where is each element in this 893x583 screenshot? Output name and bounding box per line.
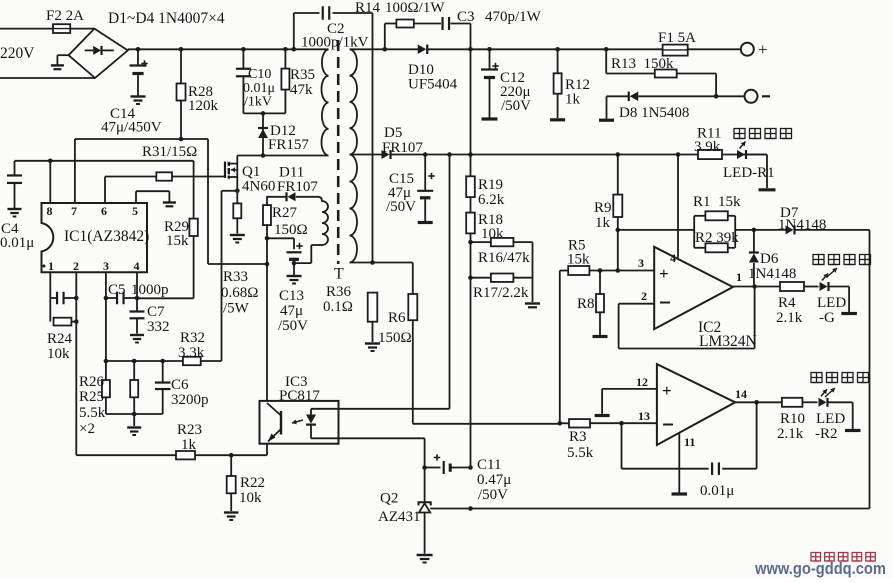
label R13 150k <box>611 56 674 72</box>
svg-text:7: 7 <box>71 204 77 218</box>
ground below R25 <box>127 414 141 435</box>
label LED -R2 <box>815 411 845 442</box>
svg-text:12: 12 <box>636 375 648 389</box>
svg-text:R2 39k: R2 39k <box>695 230 739 246</box>
wire HV rail (bridge output) <box>128 47 329 52</box>
label IC1(AZ3842) <box>64 228 149 245</box>
label D10 UF5404 <box>408 62 458 93</box>
diode D10 <box>418 45 428 55</box>
svg-text:2: 2 <box>73 259 79 273</box>
svg-text:R6: R6 <box>388 310 406 326</box>
wire R1R2 line <box>618 228 756 233</box>
label IC3 PC817 <box>279 374 320 404</box>
svg-text:R8: R8 <box>577 296 595 312</box>
svg-text:UF5404: UF5404 <box>408 77 458 93</box>
resistor R23 <box>176 451 195 459</box>
svg-text:8: 8 <box>47 204 53 218</box>
ground at bridge left vertex <box>51 55 69 69</box>
svg-text:47k: 47k <box>290 82 313 98</box>
svg-text:5.5k: 5.5k <box>79 405 106 421</box>
svg-text:4: 4 <box>134 259 140 273</box>
label R6 150ohm <box>378 310 412 346</box>
watermark url <box>754 559 886 578</box>
svg-text:D8 1N5408: D8 1N5408 <box>619 105 689 121</box>
wire R5 to pin13 node <box>559 271 561 424</box>
svg-text:C10: C10 <box>248 67 271 82</box>
resistor R22 <box>224 455 239 520</box>
svg-text:FR157: FR157 <box>268 137 309 153</box>
label Q2 AZ431 <box>378 491 421 526</box>
resistor R14 <box>396 20 413 28</box>
svg-text:www.go-gddq.com: www.go-gddq.com <box>754 559 886 578</box>
wire pin6 to gate <box>104 177 106 204</box>
ground of R16/R17 <box>525 242 540 307</box>
wire gate line <box>105 176 225 178</box>
svg-text:13: 13 <box>638 409 650 423</box>
shunt regulator Q2 AZ431 <box>417 502 433 562</box>
svg-text:11: 11 <box>684 435 695 449</box>
svg-text:R19: R19 <box>478 177 503 193</box>
svg-text:+: + <box>662 381 672 400</box>
wire pin2 long vertical <box>75 272 77 455</box>
svg-text:0.01μ: 0.01μ <box>700 483 734 499</box>
label charging indicator (CJK) <box>811 373 869 398</box>
label R32 3.3k <box>178 330 205 361</box>
svg-text:D5: D5 <box>384 125 402 141</box>
label C5 1000p <box>108 282 169 298</box>
svg-text:/50V: /50V <box>501 98 531 114</box>
svg-text:IC1(AZ3842): IC1(AZ3842) <box>64 228 149 245</box>
wire pin12 to ground <box>595 375 657 416</box>
svg-text:/5W: /5W <box>223 301 250 317</box>
svg-text:R33: R33 <box>223 269 248 285</box>
transistor Q1 MOSFET <box>225 156 240 194</box>
label D8 1N5408 <box>619 105 689 121</box>
svg-text:-G: -G <box>819 310 835 326</box>
resistor R27 <box>263 197 271 241</box>
wire divider tap to C11/Q2 <box>470 278 472 468</box>
label pin 4 <box>670 251 676 265</box>
resistor R4 <box>780 282 819 291</box>
label Q1 4N60 <box>242 164 275 195</box>
svg-text:FR107: FR107 <box>277 179 318 195</box>
label C10 0.01u/1kV <box>243 67 275 110</box>
svg-text:R22: R22 <box>240 475 265 491</box>
label C15 47u/50V <box>386 171 416 215</box>
svg-text:PC817: PC817 <box>279 388 320 404</box>
label D5 FR107 <box>382 125 423 156</box>
wire IC2b output <box>735 387 782 402</box>
fuse F2 <box>53 24 70 33</box>
svg-text:R9: R9 <box>594 200 612 216</box>
wire C2 to secondary common (Y-cap drop) <box>372 13 374 263</box>
LED-R1 power indicator <box>737 142 776 190</box>
label R31/15ohm <box>142 144 197 160</box>
wire secondary common (bottom) <box>350 260 413 265</box>
wire aux winding top <box>266 196 318 198</box>
resistor R1 / R2 parallel <box>694 211 735 252</box>
svg-text:0.68Ω: 0.68Ω <box>221 285 258 301</box>
label power indicator (CJK) <box>734 129 792 139</box>
wire IC2a output <box>733 270 780 289</box>
svg-text:4N60: 4N60 <box>242 179 275 195</box>
diode D7 <box>754 225 870 234</box>
diode D5 <box>382 150 391 159</box>
svg-text:/50V: /50V <box>478 487 508 503</box>
label charge-full indicator (CJK) <box>813 255 871 278</box>
resistor R13 branch <box>606 49 718 98</box>
svg-text:10k: 10k <box>239 490 262 506</box>
svg-text:R1 15k: R1 15k <box>693 194 741 210</box>
watermark site name (CJK) <box>811 553 875 562</box>
wire opto emitter <box>266 444 268 456</box>
svg-text:D1~D4 1N4007×4: D1~D4 1N4007×4 <box>108 10 225 27</box>
label C11 0.47u/50V <box>477 457 511 503</box>
svg-text:3.9k: 3.9k <box>694 139 721 155</box>
resistor R6 <box>408 263 417 424</box>
wire AC line top <box>0 28 94 30</box>
resistor R36 <box>365 293 380 351</box>
svg-text:R32: R32 <box>180 330 205 346</box>
wire feedback rail (pin2 to opto emitter) <box>76 453 267 458</box>
svg-text:R31/15Ω: R31/15Ω <box>142 144 197 160</box>
wire pin13 line <box>590 409 657 426</box>
wire pin3 network bottom rail <box>106 412 163 417</box>
IC1 AZ3842 box <box>42 203 148 272</box>
label C14 47u/450V <box>101 106 162 136</box>
resistor R25 <box>130 361 138 414</box>
wire low-voltage VCC rail <box>391 152 768 157</box>
svg-text:1000p/1kV: 1000p/1kV <box>301 35 369 51</box>
svg-text:1k: 1k <box>565 92 581 108</box>
svg-text:Q2: Q2 <box>380 491 398 507</box>
svg-text:-R2: -R2 <box>815 426 838 442</box>
capacitor C8 (pins 1-2) <box>50 292 78 305</box>
svg-text:R3: R3 <box>569 429 587 445</box>
diode D11 <box>287 192 296 201</box>
fuse F1 <box>663 45 688 56</box>
label D11 FR107 <box>277 165 318 196</box>
svg-text:F1 5A: F1 5A <box>658 30 696 46</box>
wire pin3 <box>104 272 109 361</box>
capacitor C5 <box>106 292 194 305</box>
wire Q1 source to R32 (current sense) <box>222 191 238 361</box>
svg-text:C3: C3 <box>457 9 475 25</box>
wire pin11 ground <box>672 433 696 494</box>
transformer primary winding <box>321 49 328 155</box>
svg-text:LED: LED <box>816 411 845 427</box>
wire pin3 input line <box>598 256 655 273</box>
svg-text:6.2k: 6.2k <box>478 192 505 208</box>
svg-text:14: 14 <box>735 387 747 401</box>
svg-text:47μ/450V: 47μ/450V <box>101 120 162 136</box>
svg-text:/50V: /50V <box>386 199 416 215</box>
label R18 10k <box>478 212 504 242</box>
label D6 1N4148 <box>748 251 796 282</box>
wire bottom common rail <box>430 506 869 511</box>
svg-text:R24: R24 <box>47 331 73 347</box>
resistor R8 <box>593 271 608 337</box>
label R24 10k <box>47 331 73 362</box>
svg-text:R35: R35 <box>290 67 315 83</box>
resistor R17 <box>468 274 532 282</box>
svg-text:R16/47k: R16/47k <box>478 250 530 266</box>
svg-text:2.1k: 2.1k <box>777 426 804 442</box>
svg-text:R10: R10 <box>780 411 805 427</box>
wire secondary top to D10 <box>350 47 419 52</box>
label R1 15k <box>693 194 741 210</box>
svg-text:15k: 15k <box>166 233 189 249</box>
label R4 2.1k <box>776 295 803 326</box>
wire snubber branch <box>385 24 471 50</box>
wire pin1 <box>49 272 51 321</box>
svg-text:R36: R36 <box>326 284 352 300</box>
label R8 <box>577 296 595 312</box>
wire secondary tap to D5 <box>350 154 382 156</box>
svg-text:R25: R25 <box>79 389 104 405</box>
svg-text:3.3k: 3.3k <box>178 345 205 361</box>
svg-text:T: T <box>334 266 344 283</box>
label T <box>334 266 344 283</box>
label D12 FR157 <box>268 123 309 153</box>
label R16/47k <box>478 250 530 266</box>
svg-text:/50V: /50V <box>278 318 308 334</box>
output terminal + <box>741 40 768 59</box>
capacitor C7 <box>130 312 145 343</box>
diode D8 line to - output <box>599 96 744 120</box>
svg-text:6: 6 <box>101 204 107 218</box>
label D1~D4 1N4007x4 <box>108 10 225 27</box>
resistor R18 <box>466 213 475 278</box>
svg-text:×2: ×2 <box>79 421 95 437</box>
resistor R32 <box>183 357 201 365</box>
resistor R9 <box>613 155 622 273</box>
label C2 1000p/1kV <box>301 21 369 51</box>
resistor R26 <box>102 361 110 414</box>
resistor R29 <box>189 161 197 298</box>
wire IC2b feedback with cap <box>622 400 759 475</box>
resistor R5 <box>560 266 618 275</box>
svg-text:/1kV: /1kV <box>244 95 272 110</box>
label R33 0.68ohm/5W <box>221 269 258 317</box>
label C3 470p/1W <box>457 9 542 25</box>
svg-text:1N4148: 1N4148 <box>778 217 826 233</box>
svg-text:R13 150k: R13 150k <box>611 56 674 72</box>
wire AC line bottom <box>0 77 95 79</box>
bridge rectifier D1-D4 <box>69 29 128 78</box>
wire VCC return to IC1 <box>208 139 269 401</box>
optocoupler IC3 PC817 <box>260 401 339 444</box>
capacitor 0.01u label <box>700 483 734 499</box>
op-amp IC2a <box>654 247 733 329</box>
label F1 5A <box>658 30 696 46</box>
capacitor C13 <box>267 238 303 283</box>
svg-text:220V: 220V <box>0 45 35 62</box>
svg-text:47μ: 47μ <box>280 303 303 319</box>
wire VCC line (pin7) <box>75 137 208 203</box>
svg-text:R23: R23 <box>177 422 202 438</box>
svg-text:0.47μ: 0.47μ <box>477 472 511 488</box>
svg-text:C11: C11 <box>477 457 501 473</box>
label R26 R25 5.5k x2 <box>79 374 106 437</box>
resistor R33 <box>230 191 245 243</box>
label R12 1k <box>565 77 590 108</box>
wire IC2a V+ (pin4) <box>677 155 679 258</box>
wire drain line <box>237 153 328 158</box>
svg-text:332: 332 <box>147 319 170 335</box>
svg-text:1: 1 <box>48 259 54 273</box>
capacitor C4 <box>7 161 22 217</box>
label R22 10k <box>239 475 265 506</box>
resistor R31 <box>156 172 172 180</box>
label R9 1k <box>594 200 612 231</box>
svg-text:150Ω: 150Ω <box>274 222 308 238</box>
op-amp IC2b <box>657 364 735 445</box>
capacitor C11 <box>425 454 473 474</box>
svg-text:R14: R14 <box>355 0 381 16</box>
label C12 220u/50V <box>500 70 531 114</box>
svg-text:C7: C7 <box>147 304 165 320</box>
wire right edge vertical <box>869 230 871 509</box>
svg-text:150Ω: 150Ω <box>378 330 412 346</box>
svg-text:15k: 15k <box>567 252 590 268</box>
label F2 2A <box>46 8 84 24</box>
LED-G charge-full indicator <box>820 274 857 314</box>
resistor R10 <box>782 398 818 407</box>
LED-R2 charging indicator <box>819 389 861 430</box>
label R27 150ohm <box>272 205 308 238</box>
transformer secondary winding <box>350 49 358 262</box>
svg-text:LED: LED <box>817 295 846 311</box>
svg-text:+: + <box>659 264 669 283</box>
label IC2 LM324N <box>698 319 757 350</box>
resistor R28 <box>177 49 186 139</box>
label R3 5.5k <box>567 429 594 461</box>
label C4 0.01u <box>0 221 34 251</box>
svg-text:R26: R26 <box>79 374 105 390</box>
resistor R11 <box>698 150 722 159</box>
label D7 1N4148 <box>778 205 826 233</box>
wire pin2 input and feedback <box>619 287 755 349</box>
resistor R16 <box>471 238 533 246</box>
svg-text:R17/2.2k: R17/2.2k <box>473 285 529 301</box>
label R14 100ohm/1W <box>355 0 445 16</box>
svg-text:1k: 1k <box>595 215 611 231</box>
label R19 6.2k <box>478 177 505 208</box>
svg-text:D6: D6 <box>760 251 779 267</box>
label LED-R1 <box>723 165 775 181</box>
svg-text:10k: 10k <box>47 346 70 362</box>
label R29 15k <box>164 219 189 249</box>
svg-text:2.1k: 2.1k <box>776 310 803 326</box>
svg-text:R27: R27 <box>272 205 298 221</box>
svg-text:C6: C6 <box>171 377 189 393</box>
svg-text:5.5k: 5.5k <box>567 445 594 461</box>
svg-text:+: + <box>758 40 768 59</box>
label R23 1k <box>177 422 202 453</box>
svg-text:2: 2 <box>641 289 647 303</box>
svg-text:0.01μ: 0.01μ <box>0 235 34 251</box>
wire D5-line drop to opto LED <box>311 155 450 409</box>
resistor R24 <box>54 318 79 326</box>
transformer core <box>337 40 340 264</box>
svg-text:1N4148: 1N4148 <box>748 266 796 282</box>
clamp network C10 box <box>236 49 290 115</box>
svg-text:120k: 120k <box>188 98 219 114</box>
label C6 3200p <box>171 377 209 408</box>
svg-text:470p/1W: 470p/1W <box>485 9 542 25</box>
svg-text:LED-R1: LED-R1 <box>723 165 775 181</box>
svg-text:1k: 1k <box>181 437 197 453</box>
svg-text:3: 3 <box>103 259 109 273</box>
label R2 39k <box>695 230 739 246</box>
label R35 47k <box>290 67 315 98</box>
label R17/2.2k <box>473 285 529 301</box>
svg-text:3200p: 3200p <box>171 392 209 408</box>
svg-text:C5: C5 <box>108 282 126 298</box>
capacitor C15 <box>417 155 435 223</box>
svg-text:C13: C13 <box>279 288 304 304</box>
label R5 15k <box>567 238 590 268</box>
capacitor C6 <box>155 361 171 414</box>
svg-text:100Ω/1W: 100Ω/1W <box>385 0 445 16</box>
label C13 47u/50V <box>278 288 308 334</box>
svg-text:R4: R4 <box>778 295 796 311</box>
label LED -G <box>817 295 846 326</box>
capacitor C12 <box>481 49 499 119</box>
wire + output rail <box>428 47 741 52</box>
diode D8 <box>629 92 639 102</box>
label C7 332 <box>147 304 170 335</box>
label R28 120k <box>188 84 219 114</box>
wire pin5 to ground <box>136 191 176 206</box>
aux winding <box>294 197 328 263</box>
capacitor C14 <box>130 49 148 104</box>
svg-text:LM324N: LM324N <box>699 333 757 350</box>
diode D12 <box>258 113 268 155</box>
resistor R12 <box>550 49 565 120</box>
resistor R3 <box>558 419 591 427</box>
label R10 2.1k <box>777 411 805 442</box>
output terminal - <box>745 90 771 103</box>
capacitor C3 <box>443 17 450 30</box>
wire pin4 <box>136 272 138 311</box>
svg-text:1: 1 <box>736 270 742 284</box>
wire pin3 network rail <box>104 359 222 364</box>
wire opto LED cathode to Q2 <box>311 438 427 502</box>
label R36 0.1ohm <box>323 284 353 315</box>
svg-text:0.1Ω: 0.1Ω <box>323 299 353 315</box>
IC1 pin numbers <box>43 204 140 273</box>
label R11 3.9k <box>694 126 721 156</box>
label 220V <box>0 45 35 62</box>
resistor R19 <box>466 49 475 212</box>
svg-text:3: 3 <box>638 256 644 270</box>
wire R6 to R3 (pin13 rail) <box>413 423 560 425</box>
svg-text:AZ431: AZ431 <box>378 509 421 525</box>
capacitor C2 branch <box>294 6 373 49</box>
diode D6 <box>749 230 759 287</box>
wire VREF line (pin8) <box>15 159 194 204</box>
svg-text:F2 2A: F2 2A <box>46 8 84 24</box>
svg-text:5: 5 <box>132 204 138 218</box>
